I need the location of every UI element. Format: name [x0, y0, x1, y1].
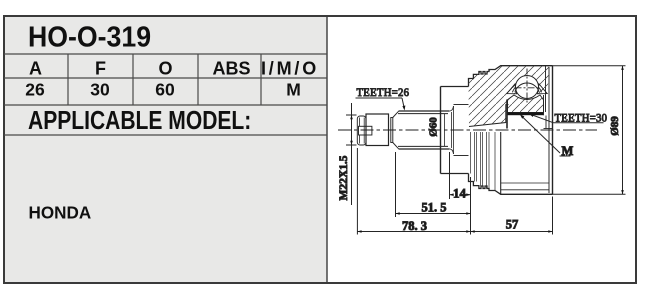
dim 51.5	[395, 152, 397, 217]
table column lines	[67, 54, 69, 105]
svg-text:HO-O-319: HO-O-319	[28, 20, 151, 52]
housing bottom profile	[469, 174, 553, 195]
spline band TEETH=30	[508, 113, 544, 116]
M22X1.5 dimension	[346, 114, 357, 116]
svg-text:51. 5: 51. 5	[422, 200, 447, 214]
dim 14	[449, 152, 451, 199]
housing right face	[552, 66, 554, 195]
svg-text:78. 3: 78. 3	[402, 219, 427, 233]
table row lines	[4, 53, 327, 55]
thread relief groove	[391, 118, 393, 143]
svg-text:Ø89: Ø89	[609, 116, 621, 136]
outer race groove arc	[512, 82, 541, 92]
svg-text:I/M/O: I/M/O	[261, 59, 319, 79]
flange hatch top	[469, 66, 509, 127]
hub cylinder behind rim	[454, 104, 469, 106]
chamfer into spline	[393, 111, 399, 117]
inner race	[508, 95, 544, 113]
ball centerline	[526, 69, 528, 104]
opening bore silhouette lines (bottom half)	[501, 182, 549, 184]
svg-text:TEETH=26: TEETH=26	[357, 86, 410, 98]
cage wedge right	[537, 84, 547, 94]
cage wedge left	[507, 84, 517, 94]
svg-text:A: A	[29, 59, 42, 79]
dim 78.3	[356, 148, 358, 235]
rim top edge	[441, 86, 469, 88]
table gray background	[4, 16, 327, 283]
spline section TEETH=26 body	[399, 111, 450, 149]
svg-text:14: 14	[453, 186, 467, 201]
svg-text:60: 60	[155, 80, 175, 100]
bottom half rib lines	[471, 132, 501, 194]
table divider between table and drawing	[326, 15, 328, 284]
svg-text:26: 26	[25, 80, 45, 100]
bore line	[469, 105, 509, 127]
thread body	[366, 114, 389, 146]
svg-text:57: 57	[506, 218, 519, 232]
svg-text:APPLICABLE MODEL:: APPLICABLE MODEL:	[28, 107, 251, 136]
rim face	[440, 87, 442, 174]
stub center tab	[359, 126, 372, 135]
threaded stub end capsule	[357, 116, 366, 145]
dim phi89	[553, 65, 626, 67]
outer race hatch top	[509, 66, 550, 97]
svg-text:M22X1.5: M22X1.5	[338, 155, 350, 200]
dim 57	[552, 197, 554, 235]
svg-text:Ø60: Ø60	[428, 117, 440, 137]
rim bottom edge	[441, 173, 469, 175]
svg-text:O: O	[158, 59, 172, 79]
main centerline	[338, 129, 597, 131]
housing top profile	[469, 66, 553, 87]
svg-text:30: 30	[90, 80, 110, 100]
svg-text:F: F	[95, 59, 106, 79]
cage arc over ball	[515, 83, 539, 92]
svg-text:HONDA: HONDA	[29, 202, 92, 223]
rim small step	[444, 114, 446, 146]
svg-text:ABS: ABS	[212, 59, 250, 79]
svg-text:M: M	[286, 80, 301, 100]
ball	[516, 76, 539, 99]
